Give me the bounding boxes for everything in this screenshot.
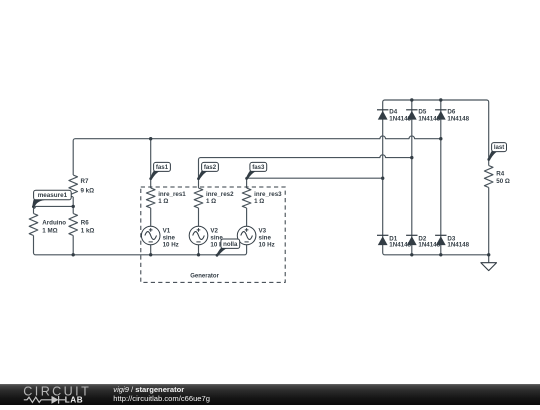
svg-text:sine: sine: [163, 235, 176, 242]
svg-text:D5: D5: [418, 108, 426, 115]
svg-text:http://circuitlab.com/c66ue7g: http://circuitlab.com/c66ue7g: [113, 394, 210, 403]
svg-text:1 Ω: 1 Ω: [206, 198, 216, 205]
svg-text:10 Hz: 10 Hz: [259, 242, 275, 249]
svg-text:inre_res3: inre_res3: [254, 191, 282, 198]
svg-text:10 Hz: 10 Hz: [163, 242, 179, 249]
svg-text:V1: V1: [163, 228, 171, 235]
svg-text:inre_res2: inre_res2: [206, 191, 234, 198]
svg-text:V2: V2: [210, 228, 218, 235]
svg-text:1 MΩ: 1 MΩ: [42, 227, 57, 234]
svg-text:1 Ω: 1 Ω: [158, 198, 168, 205]
svg-text:fas3: fas3: [252, 164, 265, 171]
svg-text:1 kΩ: 1 kΩ: [81, 227, 95, 234]
svg-text:R6: R6: [81, 220, 89, 227]
svg-text:Generator: Generator: [190, 273, 219, 279]
svg-text:R4: R4: [496, 170, 504, 177]
svg-text:R7: R7: [81, 178, 89, 185]
svg-text:1 Ω: 1 Ω: [254, 198, 264, 205]
svg-text:Arduino: Arduino: [42, 220, 66, 227]
svg-text:9 kΩ: 9 kΩ: [81, 188, 95, 195]
svg-text:sine: sine: [259, 235, 272, 242]
svg-text:last: last: [494, 144, 505, 151]
svg-text:vigi9 / stargenerator: vigi9 / stargenerator: [113, 385, 184, 394]
svg-text:inre_res1: inre_res1: [158, 191, 186, 198]
svg-text:measure1: measure1: [38, 192, 68, 199]
svg-text:1N4148: 1N4148: [447, 241, 469, 248]
svg-text:LAB: LAB: [65, 396, 83, 405]
svg-text:nolla: nolla: [223, 241, 238, 248]
svg-text:fas1: fas1: [156, 164, 169, 171]
svg-text:1N4148: 1N4148: [447, 115, 469, 122]
svg-text:D6: D6: [447, 108, 455, 115]
svg-text:50 Ω: 50 Ω: [496, 178, 510, 185]
svg-text:fas2: fas2: [204, 164, 217, 171]
svg-text:V3: V3: [259, 228, 267, 235]
svg-text:D4: D4: [389, 108, 397, 115]
